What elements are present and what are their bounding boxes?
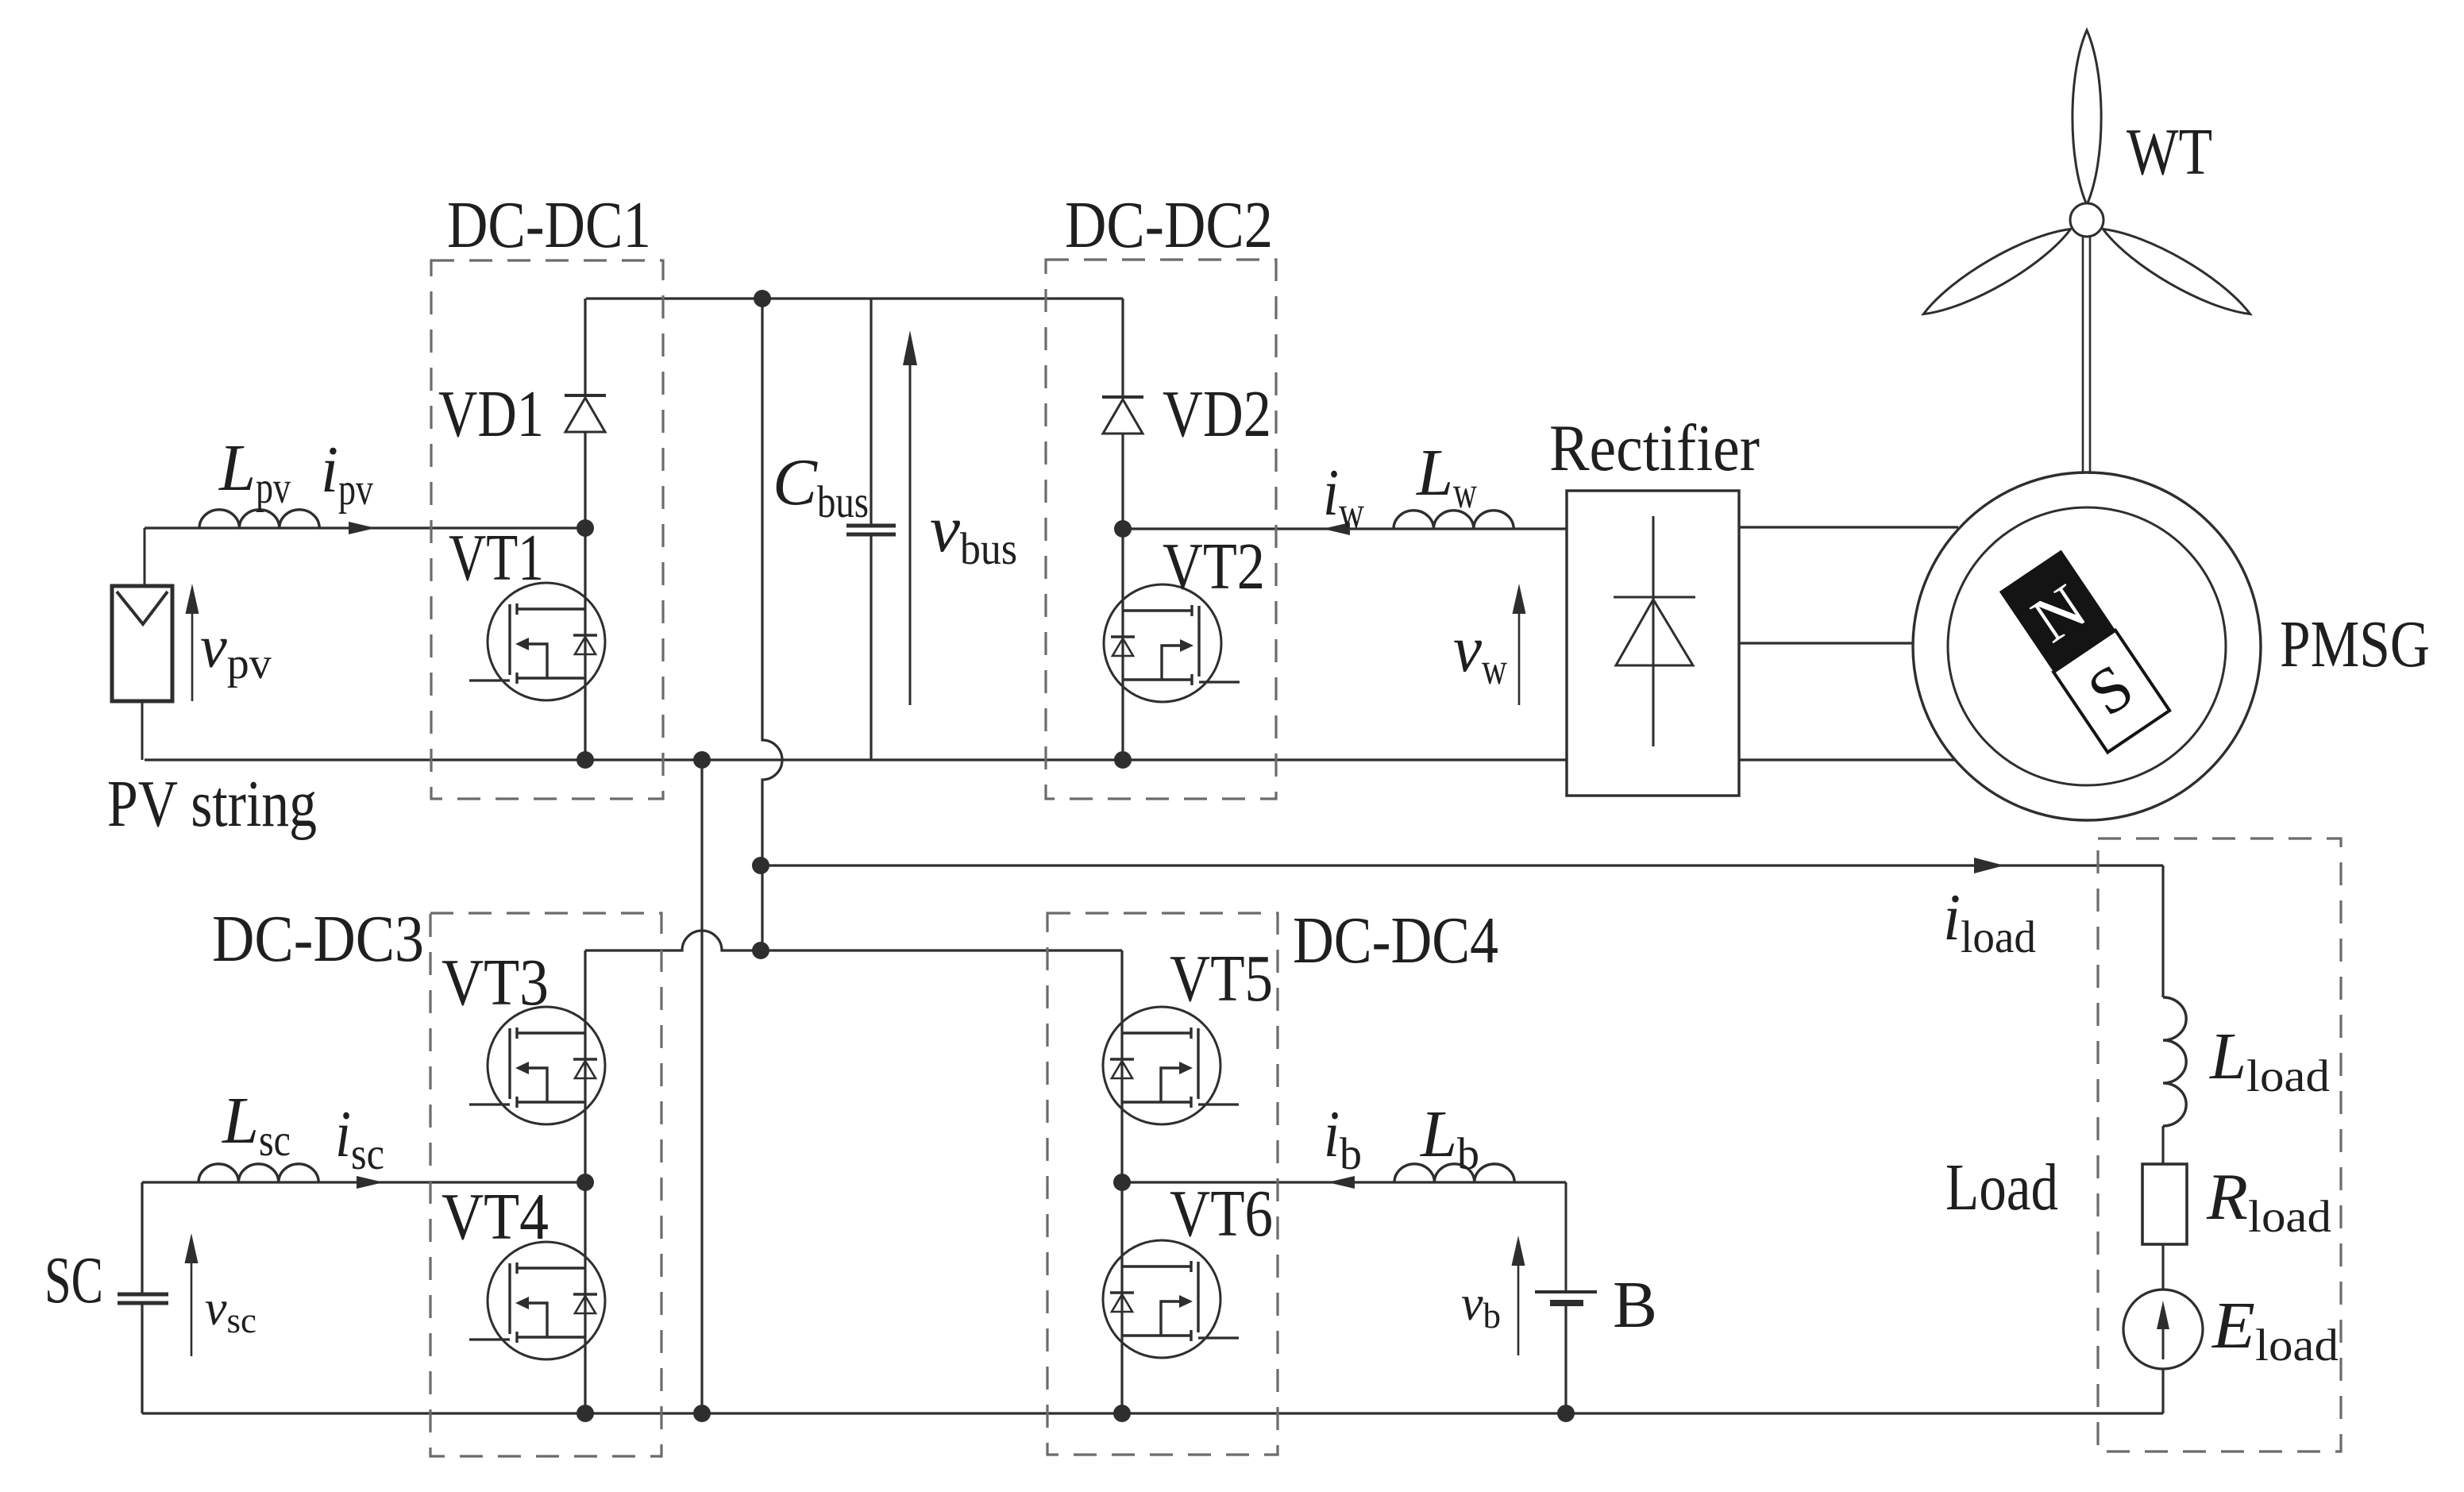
PMSG rotor magnet N/S xyxy=(1999,550,2169,753)
svg-text:B: B xyxy=(1613,1268,1657,1342)
wire VD1 to junction xyxy=(584,432,586,528)
inductor L_load xyxy=(2163,997,2186,1126)
wire load riser lower xyxy=(2161,1369,2164,1413)
wire i_load bus xyxy=(761,864,2163,866)
node VT6 source on bottom rail xyxy=(1113,1405,1131,1422)
wire PV left riser xyxy=(144,528,146,586)
wire VT4 channel xyxy=(584,1182,586,1413)
resistor R_load xyxy=(2142,1164,2187,1244)
wire rectifier to PMSG phase b xyxy=(1739,642,1913,644)
arrow i_b xyxy=(1328,1176,1355,1189)
wire rectifier to PMSG phase c xyxy=(1739,758,1955,761)
transistor VT1 (MOSFET) xyxy=(488,583,605,700)
node bus+ lower tap xyxy=(752,942,769,959)
wire battery riser lower xyxy=(1564,1306,1567,1413)
wire SC riser lower xyxy=(141,1305,143,1413)
WT tower xyxy=(2082,237,2084,474)
arrow v_bus xyxy=(909,362,912,705)
wire top bus rail xyxy=(586,297,1123,299)
node ground-link top xyxy=(693,751,711,769)
DC-DC4 dashed box xyxy=(1047,913,1278,1455)
inductor L_w xyxy=(1394,511,1513,529)
svg-text:VT4: VT4 xyxy=(442,1180,549,1254)
inductor L_b xyxy=(1394,1164,1514,1182)
wire bottom ground rail xyxy=(142,1412,2163,1414)
rectifier diode symbol xyxy=(1652,516,1655,746)
WT blade up xyxy=(2073,30,2101,205)
svg-text:VT1: VT1 xyxy=(449,521,544,595)
svg-text:PMSG: PMSG xyxy=(2280,607,2430,681)
wire i_pv (PV to DC-DC1) xyxy=(145,526,585,529)
wire VD2 branch upper xyxy=(1121,299,1124,397)
transistor VT6 (MOSFET) xyxy=(1103,1240,1220,1358)
DC-DC1 dashed box xyxy=(431,260,663,799)
rectifier box xyxy=(1567,491,1739,796)
svg-text:DC-DC3: DC-DC3 xyxy=(212,902,424,976)
svg-text:VT2: VT2 xyxy=(1163,530,1265,603)
node battery negative on bottom rail xyxy=(1557,1405,1575,1422)
node i_load tap xyxy=(752,857,769,874)
node VT1 drain / i_pv junction xyxy=(576,519,594,537)
wire rectifier to PMSG phase a xyxy=(1739,526,1958,528)
DC-DC3 dashed box xyxy=(430,913,661,1456)
PV string panel symbol xyxy=(112,586,172,701)
wire i_b (battery to DC-DC4) xyxy=(1122,1181,1566,1183)
inductor L_sc xyxy=(199,1164,318,1182)
svg-text:VT5: VT5 xyxy=(1170,942,1273,1016)
wire i_sc (SC to DC-DC3) xyxy=(142,1181,585,1183)
source E_load xyxy=(2123,1290,2203,1369)
node bus+ top xyxy=(754,290,771,307)
diode VD2 xyxy=(1102,395,1143,399)
wire SC riser upper xyxy=(141,1182,143,1293)
node ground-link bottom xyxy=(693,1405,711,1422)
svg-text:PV string: PV string xyxy=(107,767,317,841)
wire C_bus lower xyxy=(870,536,872,760)
transistor VT3 (MOSFET) xyxy=(488,1007,605,1124)
node VT2 drain / i_w junction xyxy=(1114,520,1132,538)
svg-text:Load: Load xyxy=(1945,1151,2058,1224)
wire load riser upper xyxy=(2161,866,2164,997)
wire VT3-VT5 bus with hop over ground link xyxy=(585,931,1122,950)
arrow v_w xyxy=(1518,611,1521,705)
node VT1 source on ground rail xyxy=(576,751,594,769)
arrow i_w xyxy=(1323,522,1350,535)
svg-text:VT6: VT6 xyxy=(1170,1177,1273,1251)
arrow v_pv xyxy=(191,611,194,701)
wire battery riser upper xyxy=(1514,1182,1566,1184)
wire i_w (DC-DC2 to rectifier) xyxy=(1123,527,1567,530)
Load dashed box xyxy=(2098,839,2341,1452)
arrow i_load xyxy=(1974,858,2004,873)
arrow i_sc xyxy=(357,1176,384,1189)
node VT3/VT4 midpoint xyxy=(576,1174,594,1191)
svg-text:VT3: VT3 xyxy=(442,946,549,1020)
capacitor C_bus plates xyxy=(846,524,896,528)
PMSG stator outer circle xyxy=(1913,472,2261,820)
arrow v_sc xyxy=(191,1260,193,1356)
battery B plates xyxy=(1535,1290,1597,1293)
transistor VT5 (MOSFET) xyxy=(1103,1007,1220,1124)
wire bus+ link vertical with hop over ground rail xyxy=(762,299,782,950)
wire load riser mid2 xyxy=(2161,1244,2164,1290)
wire VT6 channel xyxy=(1120,1182,1123,1413)
transistor VT2 (MOSFET) xyxy=(1104,584,1221,702)
capacitor SC plates xyxy=(118,1293,168,1297)
node VT4 source on bottom rail xyxy=(576,1405,594,1422)
svg-text:SC: SC xyxy=(44,1243,103,1317)
svg-text:Rectifier: Rectifier xyxy=(1549,411,1760,485)
diode VD1 xyxy=(565,394,606,397)
svg-text:VD2: VD2 xyxy=(1163,377,1271,451)
wire C_bus upper xyxy=(870,299,872,524)
svg-text:WT: WT xyxy=(2127,115,2212,189)
inductor L_pv xyxy=(199,510,319,528)
svg-text:DC-DC4: DC-DC4 xyxy=(1293,904,1498,977)
DC-DC2 dashed box xyxy=(1046,260,1276,799)
svg-text:DC-DC1: DC-DC1 xyxy=(447,188,651,262)
node VT5/VT6 midpoint xyxy=(1113,1174,1131,1191)
svg-text:VD1: VD1 xyxy=(438,377,544,451)
WT blade left xyxy=(1917,218,2078,326)
wire VT2 channel xyxy=(1121,529,1124,760)
WT hub xyxy=(2070,203,2103,237)
WT blade right xyxy=(2096,218,2258,326)
wire VT1 channel xyxy=(584,528,586,760)
wire load riser mid1 xyxy=(2161,1126,2164,1164)
arrow v_b xyxy=(1517,1263,1520,1355)
wire ground link vertical xyxy=(700,760,703,1413)
wire VD1 branch upper xyxy=(584,299,586,395)
wire ground rail top circuit xyxy=(145,758,1567,761)
PMSG rotor inner circle xyxy=(1948,507,2226,785)
arrow i_pv xyxy=(349,522,376,534)
wire VD2 to junction xyxy=(1121,434,1124,529)
svg-text:DC-DC2: DC-DC2 xyxy=(1065,188,1273,262)
wire VT3 drain riser xyxy=(584,950,586,1182)
node VT2 source on ground rail xyxy=(1114,751,1132,769)
wire VT5 drain riser xyxy=(1120,950,1123,1182)
transistor VT4 (MOSFET) xyxy=(488,1242,605,1359)
